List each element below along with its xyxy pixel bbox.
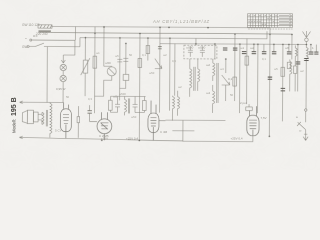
lamp L1 — [60, 64, 66, 70]
capacitor C14 — [242, 52, 247, 54]
coil L5 core — [217, 63, 219, 103]
fuse F2 body (solid) — [38, 30, 50, 32]
wire x316.5 drop — [315, 45, 317, 52]
wire bus A (y27) — [52, 26, 270, 27]
tube V2 internals — [100, 123, 108, 130]
resistor R9 body — [281, 67, 285, 76]
wire x95 vertical — [93, 27, 96, 113]
switch S1 blade — [35, 43, 44, 47]
wire x306 lower — [305, 62, 308, 123]
resistor R8 body (horizontal) — [246, 107, 252, 111]
wire tube V4 pins — [249, 106, 256, 116]
wire x292 vertical — [291, 34, 293, 59]
wire heater line top — [20, 101, 64, 104]
capacitor C25 — [268, 77, 272, 79]
tube envelopes (slightly darker) — [60, 100, 259, 141]
wire x264 drop — [263, 44, 265, 51]
wire x311 drop — [310, 45, 312, 52]
terminal ring on antenna line — [305, 109, 307, 111]
coil L10 winding — [295, 45, 297, 66]
middle cluster capacitor C12 — [115, 98, 120, 112]
wire x196 stub — [195, 38, 197, 45]
coil T1 primary — [172, 96, 174, 121]
wire x235 vertical — [234, 34, 236, 101]
wire middle cluster bottom — [110, 110, 144, 112]
switch S2 blade — [297, 122, 306, 130]
lamp L2 — [60, 75, 66, 81]
capacitor C5 plates — [200, 46, 205, 57]
capacitor C23 — [223, 48, 228, 50]
wire x104 vertical — [103, 27, 105, 66]
wire mains line E (left, y47.5 with switch gap) — [29, 45, 80, 47]
earth arrow — [303, 130, 308, 141]
resistor R6 body — [233, 77, 237, 86]
tube V2 envelope — [97, 119, 112, 134]
wire x47.5 vertical — [46, 47, 48, 103]
capacitor C22 — [309, 52, 314, 54]
capacitor C20 — [296, 62, 301, 64]
small value labels — [55, 46, 314, 141]
capacitor C16 — [262, 52, 267, 54]
wire bus A to D link — [159, 27, 161, 43]
tube V4 internals — [249, 120, 257, 135]
bottom bus wire — [19, 136, 183, 141]
oscillator dashed box — [184, 45, 217, 59]
wire x254 drop — [253, 44, 255, 51]
plug pin P2 — [27, 45, 29, 47]
capacitor C17 — [272, 52, 277, 54]
wire x170 vertical — [169, 38, 171, 110]
wire bus C (y37.5, corner up to table at right) — [80, 30, 267, 39]
label mains voltages — [22, 23, 48, 49]
middle cluster resistor R11 — [143, 101, 147, 111]
resistor R3 body — [138, 58, 142, 67]
wire tube1-tube2 bottom link — [77, 106, 79, 138]
wire R1 top — [84, 38, 86, 60]
antenna symbol — [302, 31, 310, 38]
table component values — [248, 14, 293, 28]
wire bus D (y43) — [160, 43, 306, 46]
potentiometer R1 body — [83, 60, 87, 73]
speaker frame — [27, 110, 33, 123]
wire C26 stubs — [90, 105, 97, 121]
wire bus B (y33) — [51, 33, 292, 34]
capacitor C2 plates — [117, 59, 122, 62]
tube V4 envelope — [247, 115, 259, 135]
capacitor C21 — [304, 58, 309, 60]
wire x215 stub — [214, 44, 216, 59]
potentiometer R1 wiper — [81, 58, 90, 75]
wire x289 drop — [288, 44, 290, 51]
coil L8 antenna winding — [306, 48, 308, 62]
wire x247 vertical — [247, 39, 250, 107]
tube V1 envelope — [60, 109, 71, 132]
paper texture overlay — [0, 0, 1, 1]
wire x274 drop — [273, 44, 275, 51]
wire x283 vertical — [281, 44, 283, 121]
capacitor C18 — [281, 88, 286, 91]
transformer T2 core — [46, 110, 47, 127]
wire x175 vertical — [174, 44, 176, 96]
resistor R14 body — [287, 62, 290, 69]
capacitor C3 plates — [123, 58, 128, 61]
middle cluster resistor R10 — [109, 100, 113, 110]
wire R13 down — [294, 73, 296, 91]
capacitor C28 — [314, 52, 318, 54]
wire x148 vertical — [147, 38, 149, 60]
tube V3 internals — [150, 118, 156, 133]
tuning capacitor CV1 — [155, 59, 162, 69]
coil L6 winding — [212, 85, 214, 113]
tube V1 internals — [63, 115, 69, 132]
coil T1 secondary — [177, 91, 179, 116]
wire R1 bottom — [84, 73, 86, 96]
coil L5 winding — [213, 59, 215, 81]
wire x120 vertical — [119, 38, 121, 100]
capacitor C27 plates — [158, 47, 162, 49]
wire C1 links — [95, 66, 112, 96]
wire tube V1 pins — [63, 103, 68, 139]
wire x240 vertical — [238, 44, 240, 113]
wire D1 links — [120, 43, 126, 88]
transformer T2 secondary winding — [42, 112, 44, 124]
transformer T2 primary winding — [50, 103, 52, 133]
wire lamp chain — [62, 71, 64, 103]
table cell text marks — [248, 16, 292, 29]
wire x298 vertical — [297, 44, 299, 91]
label sprinkle texture — [66, 51, 304, 119]
wire x226 vertical — [225, 59, 227, 101]
wire anode line y119.5 — [165, 119, 225, 121]
wire mains line D (left, y41.5) — [32, 39, 75, 41]
resistor R2 body — [93, 56, 97, 68]
middle cluster coil L9 — [124, 96, 126, 115]
wire T2 primary ends — [49, 102, 51, 137]
wire middle cluster top — [111, 96, 146, 100]
capacitor C4 plates — [188, 46, 193, 57]
wire tube V2 pins — [101, 112, 107, 140]
wire x270 vertical — [268, 28, 271, 136]
coil L3 core — [194, 67, 196, 91]
dark capacitor blobs on bus D row — [223, 48, 319, 91]
resistor R5 body — [146, 46, 150, 54]
capacitor C24 — [233, 48, 238, 50]
wire x160 vertical — [158, 44, 160, 113]
rectifier D1 box — [123, 74, 129, 80]
wire x258 vertical — [256, 44, 258, 113]
coil L7 winding — [290, 59, 292, 91]
resistor R7 body — [245, 56, 249, 65]
capacitor C19 — [287, 52, 292, 54]
speaker driver — [33, 112, 38, 122]
middle cluster coil L9 core — [128, 98, 129, 113]
wire speaker to T2 — [38, 114, 42, 120]
wire bottom left long — [172, 130, 194, 132]
middle cluster capacitor C13 — [132, 98, 137, 112]
coil L3 winding — [190, 59, 192, 97]
resistor R13 body — [294, 66, 297, 74]
coil L4 winding — [198, 59, 200, 91]
wire x75 riser — [63, 27, 75, 56]
wire tube4 bottom — [246, 136, 253, 142]
lamp arrow — [61, 55, 65, 63]
capacitor C26 plates — [87, 111, 91, 114]
wire x80 riser — [79, 38, 81, 47]
fuse F1 hatching — [40, 25, 52, 28]
capacitor C15 — [252, 52, 256, 54]
plug pin P1 — [30, 39, 32, 41]
fuse F1 body — [38, 25, 52, 28]
capacitor C1 (electrolytic circle) — [107, 67, 116, 76]
speaker cone — [22, 111, 27, 124]
tuning capacitor CV2 — [222, 75, 230, 85]
wire tube V3 pins — [151, 101, 166, 141]
wire antenna down — [305, 41, 307, 47]
wire x140 vertical (long) — [138, 33, 141, 140]
resistor R12 body — [77, 117, 80, 123]
tube V3 envelope — [148, 113, 159, 132]
bottom bus wire right — [183, 120, 247, 141]
